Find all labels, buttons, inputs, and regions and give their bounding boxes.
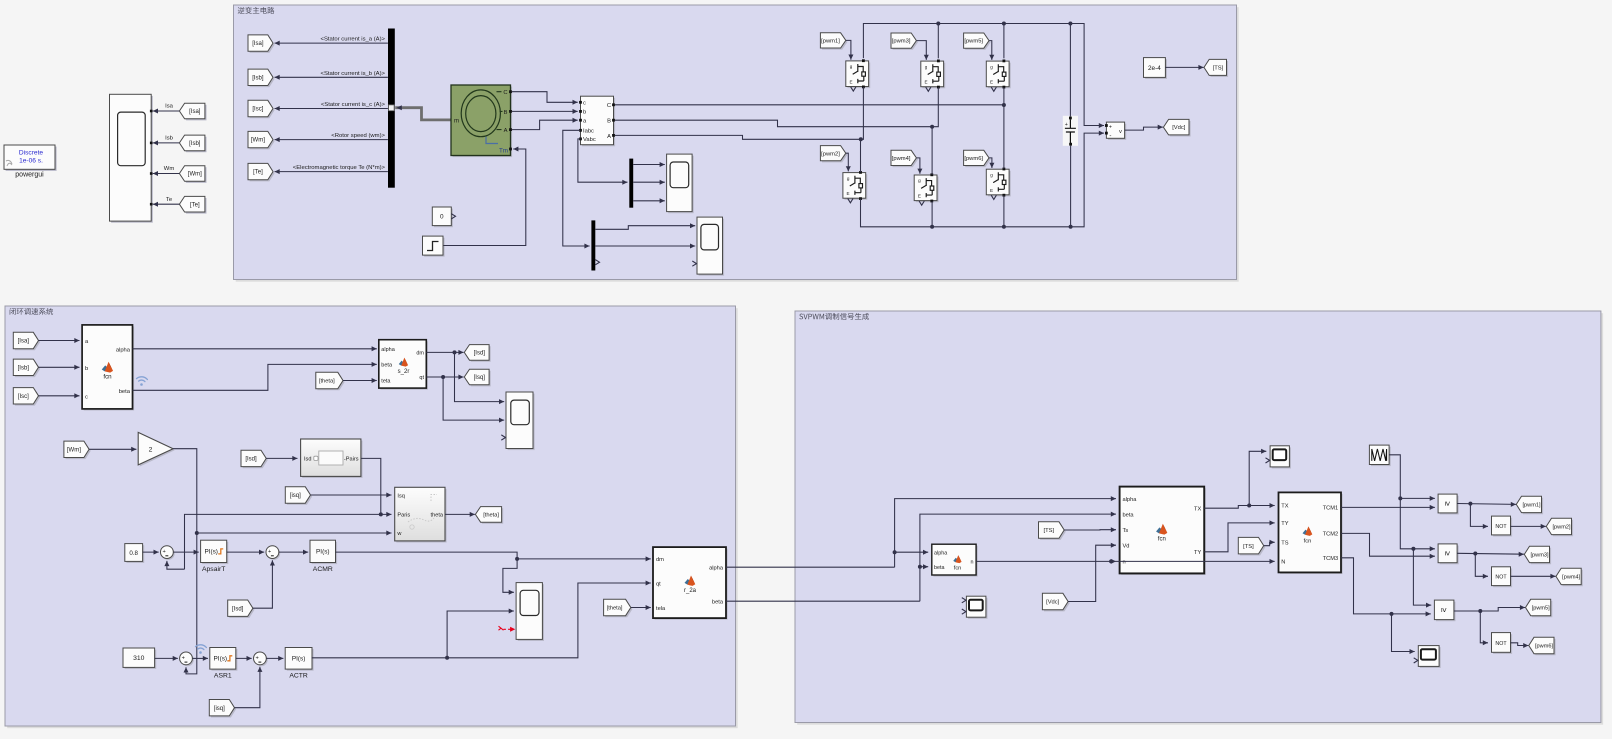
constant 0.8 bbox=[126, 545, 144, 563]
wire r_2a alpha to SVPWM area bbox=[726, 566, 895, 568]
sum2 circle bbox=[267, 547, 280, 560]
wire gain down to sum3 (speed feedback) bbox=[173, 449, 197, 674]
svg-text:+: + bbox=[1109, 125, 1112, 131]
goto tag [Isb] (left) bbox=[181, 137, 207, 153]
svg-text:C: C bbox=[503, 90, 507, 96]
demux2 bar bbox=[591, 220, 595, 270]
scope1 (3-input) bbox=[668, 156, 694, 214]
wire ACTR to r_2a qt and scope4 bbox=[312, 583, 651, 658]
from tag [Isd] (to sum2) bbox=[229, 602, 254, 618]
wire NOT1 to [pwm2] bbox=[1511, 525, 1546, 527]
block powergui bbox=[6, 147, 57, 171]
wire machine C to VI c bbox=[512, 92, 578, 103]
gain block 2 (triangle) bbox=[140, 434, 175, 467]
wire IGBT Q5 collector up bbox=[1003, 24, 1005, 59]
svg-text:fcn: fcn bbox=[1304, 538, 1312, 544]
from tag [isq] (to Isq input) bbox=[287, 488, 312, 504]
svg-text:NOT: NOT bbox=[1495, 575, 1507, 581]
svg-text:[Isa]: [Isa] bbox=[252, 41, 264, 47]
wire VI Vabc down to demux1 bbox=[578, 139, 628, 182]
bus selector bar bbox=[388, 29, 395, 188]
goto tag [Wm] (left) bbox=[181, 167, 207, 183]
wire [Isc] to fcn c bbox=[39, 395, 80, 397]
svg-text:fcn: fcn bbox=[1158, 537, 1166, 543]
wire NOT2 to [pwm4] bbox=[1511, 575, 1556, 577]
wire [Te] to scope + label Te bbox=[153, 203, 180, 205]
repeating sequence (triangle wave) block bbox=[1371, 447, 1391, 466]
wire flux feedback line to Paris input and sum1 bbox=[185, 514, 392, 569]
goto tag [pwm6] bbox=[1530, 639, 1555, 655]
svg-text:m: m bbox=[454, 118, 459, 124]
wire ASR1 to sum4 bbox=[236, 657, 252, 659]
sector detection fcn block bbox=[933, 546, 977, 577]
voltage measurement block bbox=[1108, 124, 1126, 140]
wire ApsairT to sum2 bbox=[227, 551, 265, 553]
red commented-out signal into scope4 bbox=[499, 626, 504, 630]
svg-text:[Isq]: [Isq] bbox=[474, 375, 486, 381]
svg-text:Isa: Isa bbox=[165, 104, 174, 110]
wire demux2 out1 to scope2 bbox=[595, 226, 695, 230]
svg-text:E: E bbox=[847, 191, 850, 196]
svg-text:<Stator current is_b (A)>: <Stator current is_b (A)> bbox=[321, 71, 386, 77]
svg-text:PI(s): PI(s) bbox=[292, 656, 306, 663]
constant 2e-4 bbox=[1145, 59, 1167, 79]
leg3 midpoint wire Q5-Q6 bbox=[1003, 87, 1005, 169]
svg-text:beta: beta bbox=[381, 363, 393, 369]
IGBT Q1 bbox=[847, 63, 870, 89]
svg-text:[pwm3]: [pwm3] bbox=[1530, 553, 1548, 559]
wire IGBT Q6 emitter down bbox=[1003, 195, 1005, 227]
svg-text:0.8: 0.8 bbox=[129, 550, 138, 557]
MATLAB function block s_2r bbox=[380, 341, 428, 389]
wire bus to [Isb] + signal label bbox=[275, 76, 388, 78]
svg-text:TX: TX bbox=[1281, 504, 1288, 510]
svg-text:E: E bbox=[990, 188, 993, 193]
svg-text:[pwm4]: [pwm4] bbox=[1562, 575, 1580, 581]
svg-text:[Isd]: [Isd] bbox=[232, 606, 244, 612]
svg-text:alpha: alpha bbox=[381, 347, 395, 353]
PI block ACTR bbox=[287, 649, 314, 671]
from tag [Isa] (area2) bbox=[15, 334, 40, 350]
from tag [pwm5] bbox=[965, 35, 990, 50]
scope2 unconnected input chevron bbox=[692, 261, 696, 266]
svg-text:Te: Te bbox=[166, 197, 173, 203]
svg-text:<Electromagnetic torque Te (N*: <Electromagnetic torque Te (N*m)> bbox=[293, 165, 386, 171]
sum4 circle bbox=[255, 653, 268, 666]
wire Pairs output down to Paris line bbox=[361, 458, 381, 514]
svg-text:B: B bbox=[607, 119, 611, 125]
sum3 circle bbox=[181, 653, 194, 666]
svg-text:TCM3: TCM3 bbox=[1323, 556, 1338, 562]
svg-text:v: v bbox=[1119, 129, 1122, 135]
NOT block 2 bbox=[1493, 568, 1512, 587]
wire TCM3 to GEQ3 and bottom scope bbox=[1341, 558, 1431, 614]
svg-text:<Stator current is_c (A)>: <Stator current is_c (A)> bbox=[321, 102, 386, 108]
wire demux2 out2 to scope2 bbox=[595, 245, 695, 247]
svg-text:qt: qt bbox=[656, 581, 661, 587]
wire 2e-4 to [TS] bbox=[1165, 66, 1203, 68]
svg-text:teta: teta bbox=[381, 379, 391, 385]
goto tag [Isq] (qt) bbox=[466, 371, 491, 387]
goto tag [Te] (top area) bbox=[250, 165, 275, 181]
from tag [pwm2] bbox=[822, 147, 847, 162]
svg-text:<Rotor speed (wm)>: <Rotor speed (wm)> bbox=[331, 133, 385, 139]
goto tag [Te] (left) bbox=[181, 198, 207, 214]
wire [TS] to Ts input bbox=[1064, 529, 1116, 531]
svg-text:PI(s): PI(s) bbox=[316, 549, 330, 556]
wire VM to [Vdc] bbox=[1125, 127, 1163, 130]
goto tag [pwm3] bbox=[1526, 548, 1551, 564]
svg-text:ACTR: ACTR bbox=[289, 673, 308, 680]
wire demux1 out1 to scope1 bbox=[633, 164, 665, 166]
MATLAB function block fcn (clarke) bbox=[84, 327, 134, 411]
display scope (TX) bbox=[1272, 447, 1291, 468]
svg-text:Discrete: Discrete bbox=[19, 150, 44, 157]
svg-text:NOT: NOT bbox=[1495, 641, 1507, 647]
goto tag [pwm1] bbox=[1518, 498, 1543, 514]
wire bus to [Wm] + signal label bbox=[275, 139, 388, 141]
from tag [Isd] (to Pairs) bbox=[243, 452, 268, 468]
svg-text:b: b bbox=[85, 366, 88, 372]
from tag [Isb] (area2) bbox=[15, 361, 40, 377]
wire GEQ1 to [pwm1] and NOT1 bbox=[1457, 503, 1516, 506]
svg-text:alpha: alpha bbox=[709, 565, 724, 571]
svg-text:A: A bbox=[504, 128, 508, 134]
from tag [pwm4] bbox=[893, 152, 918, 167]
svg-text:n: n bbox=[1123, 560, 1126, 566]
svg-text:E: E bbox=[918, 194, 921, 199]
svg-text:alpha: alpha bbox=[934, 551, 947, 557]
IGBT Q5 bbox=[988, 63, 1011, 89]
svg-text:[pwm1]: [pwm1] bbox=[1522, 503, 1540, 509]
wire fcn beta to s_2r beta bbox=[133, 364, 377, 390]
svg-text:g: g bbox=[925, 64, 928, 69]
from tag [Isc] (area2) bbox=[15, 389, 40, 405]
svg-text:≥: ≥ bbox=[1443, 551, 1452, 556]
wire beta up to big fcn + branch to sector fcn bbox=[920, 514, 1116, 601]
svg-text:beta: beta bbox=[1123, 512, 1135, 518]
wire GEQ2 to [pwm3] and NOT2 bbox=[1457, 552, 1524, 555]
svg-text:[pwm4]: [pwm4] bbox=[892, 156, 911, 162]
svg-text:[pwm1]: [pwm1] bbox=[821, 39, 840, 45]
scope block (4-input) bbox=[111, 96, 153, 223]
area: inverter main circuit 逆变主电路 bbox=[236, 7, 1239, 282]
svg-text:Wm: Wm bbox=[164, 166, 175, 172]
scope3 unconnected input chevron bbox=[501, 435, 505, 440]
svg-text:Vd: Vd bbox=[1123, 543, 1130, 549]
svg-text:TCM1: TCM1 bbox=[1323, 505, 1338, 511]
wire [Vdc] up to Vd input bbox=[1068, 545, 1116, 601]
wire sum1 to PI ApsairT bbox=[173, 551, 199, 553]
leg2 midpoint wire Q3-Q4 bbox=[932, 87, 938, 175]
step block bbox=[424, 238, 445, 257]
constant 310 bbox=[125, 650, 157, 669]
NOT block 1 bbox=[1493, 518, 1512, 537]
svg-text:+: + bbox=[256, 655, 259, 661]
wire [pwm2] to IGBT gate bbox=[846, 153, 848, 171]
svg-text:[Isa]: [Isa] bbox=[189, 109, 201, 115]
wire bus to [Isa] + signal label bbox=[275, 42, 388, 44]
bottom scope (TCM3) bbox=[1420, 647, 1441, 668]
DC+ rail wire bbox=[863, 24, 1104, 126]
wire IGBT Q4 emitter down bbox=[931, 201, 933, 227]
wire [Isb] to fcn b bbox=[39, 366, 80, 368]
goto tag [Isb] (top area) bbox=[250, 71, 275, 87]
svg-text:c: c bbox=[583, 101, 586, 107]
svg-text:qt: qt bbox=[419, 375, 424, 381]
goto tag [Isa] (top area) bbox=[250, 37, 275, 53]
svg-text:s_2r: s_2r bbox=[398, 369, 410, 375]
PI block ApsairT bbox=[202, 542, 228, 564]
wire [Isd] to Pairs bbox=[266, 457, 297, 459]
svg-text:fcn: fcn bbox=[103, 374, 112, 381]
svg-text:[theta]: [theta] bbox=[319, 379, 335, 385]
svg-text:g: g bbox=[990, 64, 993, 69]
svg-text:E: E bbox=[990, 80, 993, 85]
svg-text:[Isd]: [Isd] bbox=[474, 351, 486, 357]
asynchronous machine block (green) bbox=[453, 87, 512, 158]
svg-text:Isd: Isd bbox=[304, 457, 311, 463]
svg-text:[Isc]: [Isc] bbox=[18, 394, 29, 400]
svg-text:Vabc: Vabc bbox=[583, 137, 596, 143]
thick physical wire bus to machine m bbox=[395, 108, 450, 120]
from tag [pwm3] bbox=[893, 35, 918, 50]
goto tag [TS] (top) bbox=[1206, 61, 1229, 77]
svg-text:[Isb]: [Isb] bbox=[18, 365, 30, 371]
svg-text:[pwm2]: [pwm2] bbox=[821, 151, 840, 157]
wire gain branch to w input bbox=[197, 532, 392, 534]
wire [pwm3] to IGBT gate bbox=[917, 41, 927, 60]
svg-text:NOT: NOT bbox=[1495, 524, 1507, 530]
svg-text:[Isb]: [Isb] bbox=[252, 75, 264, 81]
wire sum2 to PI ACMR bbox=[279, 551, 308, 553]
wire IGBT Q3 collector up bbox=[937, 24, 939, 59]
bus selector input port marker bbox=[389, 105, 395, 111]
svg-text:-: - bbox=[1109, 132, 1111, 139]
wire [Isb] to scope + label Isb bbox=[153, 142, 180, 144]
svg-text:PI(s): PI(s) bbox=[204, 549, 218, 556]
svg-text:[Wm]: [Wm] bbox=[67, 447, 81, 453]
IGBT Q6 bbox=[988, 171, 1011, 197]
goto tag [Wm] (top area) bbox=[250, 133, 275, 149]
wire s_2r dm to [Isd] and scope3 bbox=[426, 351, 463, 353]
wire cap top to DC+ rail bbox=[1069, 24, 1071, 117]
svg-text:[pwm5]: [pwm5] bbox=[1532, 606, 1550, 612]
svg-text:Isq: Isq bbox=[397, 494, 404, 500]
svg-text:[isq]: [isq] bbox=[214, 706, 225, 712]
svg-text:310: 310 bbox=[133, 655, 145, 662]
junction dots on DC+ rail bbox=[936, 22, 940, 26]
goto tag [pwm4] bbox=[1558, 570, 1583, 586]
svg-text:[TS]: [TS] bbox=[1043, 528, 1054, 534]
wire r_2a beta to SVPWM area bbox=[726, 600, 920, 602]
svg-text:≥: ≥ bbox=[1440, 608, 1449, 613]
svg-text:Ts: Ts bbox=[1123, 528, 1129, 534]
IGBT Q4 bbox=[916, 177, 939, 203]
svg-text:[TS]: [TS] bbox=[1243, 544, 1254, 550]
goto tag [Isa] (left) bbox=[181, 105, 207, 121]
svg-text:<Stator current is_a (A)>: <Stator current is_a (A)> bbox=[321, 37, 386, 43]
svg-text:+: + bbox=[1065, 122, 1068, 128]
svg-text:g: g bbox=[847, 176, 850, 181]
goto tag [pwm2] bbox=[1548, 520, 1573, 536]
svg-text:fcn: fcn bbox=[954, 566, 961, 572]
svg-text:+: + bbox=[182, 655, 185, 661]
svg-text:TCM2: TCM2 bbox=[1323, 532, 1338, 538]
svg-text:TS: TS bbox=[1281, 541, 1288, 547]
sum1 circle bbox=[162, 547, 175, 560]
wire sum4 to PI ACTR bbox=[266, 657, 283, 659]
svg-text:[Isd]: [Isd] bbox=[245, 457, 257, 463]
wire cap bottom to DC- rail bbox=[1070, 146, 1072, 227]
svg-text:Iabc: Iabc bbox=[583, 129, 594, 135]
from tag [TS] (to big fcn) bbox=[1040, 523, 1066, 540]
svg-text:A: A bbox=[607, 134, 611, 140]
svg-text:PI(s): PI(s) bbox=[214, 656, 228, 663]
svg-text:r_2a: r_2a bbox=[684, 588, 697, 594]
svg-text:[Isc]: [Isc] bbox=[252, 107, 263, 113]
MATLAB function block r_2a bbox=[655, 549, 728, 620]
wire 310 to sum3 bbox=[155, 657, 178, 659]
PI block ACMR bbox=[312, 542, 338, 564]
wire triangle to three relational operators bbox=[1389, 455, 1435, 499]
signal logging badge (speed error) bbox=[196, 645, 207, 654]
wire sum3 to PI ASR1 bbox=[192, 657, 208, 659]
goto tag [pwm5] bbox=[1527, 601, 1552, 617]
svg-text:[pwm5]: [pwm5] bbox=[964, 39, 983, 45]
svg-text:[Vdc]: [Vdc] bbox=[1046, 600, 1060, 606]
wire NOT3 to [pwm6] bbox=[1511, 643, 1529, 646]
DC bus capacitor bbox=[1063, 116, 1078, 146]
signal logging badge (fcn beta) bbox=[137, 377, 148, 386]
goto tag [theta] (area2) bbox=[477, 508, 503, 524]
phase B wire from VI to leg2 bbox=[615, 120, 932, 127]
wire demux1 out2 to scope1 bbox=[633, 181, 665, 183]
wire [Isa] to fcn a bbox=[39, 340, 80, 342]
wire demux1 out3 to scope1 bbox=[633, 200, 665, 202]
PI block ASR1 bbox=[211, 649, 237, 671]
from tag [pwm6] bbox=[965, 152, 990, 167]
area: closed-loop speed control 闭环调速系统 bbox=[7, 308, 738, 728]
wire bus to [Isc] + signal label bbox=[275, 108, 388, 110]
wire [pwm1] to IGBT gate bbox=[846, 40, 851, 59]
relational operator GEQ1 bbox=[1440, 496, 1459, 515]
svg-text:[pwm6]: [pwm6] bbox=[964, 156, 983, 162]
svg-text:[pwm3]: [pwm3] bbox=[892, 39, 911, 45]
wire [Isd] up to sum2 bbox=[253, 560, 273, 608]
wire [theta] to s_2r teta bbox=[343, 380, 377, 382]
wire [Wm] to scope + label Wm bbox=[153, 173, 180, 175]
svg-text:0: 0 bbox=[440, 214, 444, 221]
svg-text:Tm: Tm bbox=[499, 148, 508, 155]
svg-text:g: g bbox=[990, 172, 993, 177]
NOT block 3 bbox=[1493, 634, 1512, 654]
svg-text:b: b bbox=[583, 110, 586, 116]
goto tag [Vdc] (top) bbox=[1165, 121, 1191, 137]
DC- rail wire bbox=[861, 133, 1105, 227]
svg-text:TX: TX bbox=[1194, 506, 1201, 512]
svg-text:[Te]: [Te] bbox=[253, 170, 263, 176]
constant block 0 bbox=[434, 209, 453, 228]
svg-text:ACMR: ACMR bbox=[313, 566, 333, 573]
from tag [theta] (to s_2r) bbox=[317, 374, 344, 390]
wire step to machine Tm bbox=[444, 149, 526, 246]
svg-text:E: E bbox=[924, 80, 927, 85]
relational operator GEQ2 bbox=[1440, 546, 1459, 565]
svg-text:ApsairT: ApsairT bbox=[202, 566, 225, 573]
svg-text:-Pairs: -Pairs bbox=[344, 457, 359, 463]
svg-text:B: B bbox=[504, 110, 508, 116]
wire [Isa] to scope + label Isa bbox=[153, 110, 180, 112]
phase A wire from VI to leg1 bbox=[615, 135, 861, 139]
IGBT Q3 bbox=[922, 63, 945, 89]
from tag [Wm] (area2) bbox=[66, 443, 91, 459]
wire TY to TCM fcn bbox=[1204, 523, 1275, 552]
scope4 (with commented input) bbox=[518, 584, 544, 641]
svg-text:g: g bbox=[918, 178, 921, 183]
wire [TS] to TS input of TCM fcn bbox=[1264, 542, 1275, 545]
svg-text:2e-4: 2e-4 bbox=[1148, 65, 1161, 72]
wire [pwm5] to IGBT gate bbox=[989, 41, 992, 60]
wire TX to TCM fcn and display bbox=[1204, 506, 1275, 509]
demux2 unconnected out chevron bbox=[595, 260, 599, 265]
wire VI Iabc down to demux2 bbox=[563, 130, 590, 246]
wire TCM2 to GEQ2 bbox=[1341, 533, 1435, 556]
wire sector n to big fcn n and TCM fcn N (passes over block) bbox=[976, 560, 1111, 562]
svg-text:+: + bbox=[163, 549, 166, 555]
svg-text:[pwm2]: [pwm2] bbox=[1552, 525, 1570, 531]
wire ACMR to r_2a dm and scope4 bbox=[336, 552, 651, 559]
svg-text:[TS]: [TS] bbox=[1213, 66, 1224, 72]
wire fcn alpha to s_2r alpha bbox=[133, 348, 377, 350]
goto tag [Isc] (top area) bbox=[250, 102, 275, 118]
wire alpha up to big fcn + branch to sector fcn bbox=[895, 499, 1116, 568]
wire [pwm4] to IGBT gate bbox=[917, 158, 920, 174]
from tag [Vdc] (to big fcn) bbox=[1044, 595, 1070, 612]
svg-text:c: c bbox=[85, 394, 88, 400]
svg-text:ASR1: ASR1 bbox=[214, 673, 232, 680]
svg-text:[Isb]: [Isb] bbox=[189, 141, 201, 147]
from tag [pwm1] bbox=[822, 34, 847, 49]
svg-text:[theta]: [theta] bbox=[607, 606, 623, 612]
svg-text:powergui: powergui bbox=[15, 172, 44, 179]
small scope (2 unconnected inputs) bbox=[968, 598, 988, 619]
wire 0.8 to sum1 bbox=[143, 551, 159, 553]
phase C wire from VI to leg3 bbox=[615, 104, 1004, 106]
svg-text:beta: beta bbox=[934, 565, 945, 571]
svg-text:[Isa]: [Isa] bbox=[18, 339, 30, 345]
leg1 midpoint wire Q1-Q2 bbox=[861, 87, 864, 172]
scope3 (dq currents) bbox=[508, 394, 535, 451]
area: SVPWM signal generation SVPWM调制信号生成 bbox=[797, 313, 1603, 725]
svg-text:g: g bbox=[850, 64, 853, 69]
svg-text:N: N bbox=[1281, 560, 1285, 566]
wire machine B to VI b bbox=[512, 110, 578, 112]
wire TCM1 to GEQ1 bbox=[1341, 506, 1435, 508]
wire [isq] up to sum4 bbox=[235, 667, 260, 708]
svg-text:≥: ≥ bbox=[1443, 501, 1452, 506]
svg-text:E: E bbox=[849, 80, 852, 85]
svg-text:Paris: Paris bbox=[397, 513, 410, 519]
demux1 bar bbox=[629, 159, 633, 208]
svg-text:[Te]: [Te] bbox=[190, 202, 200, 208]
svg-text:tela: tela bbox=[656, 606, 666, 612]
svg-text:C: C bbox=[607, 103, 611, 109]
svg-text:dm: dm bbox=[416, 351, 424, 357]
svg-text:TY: TY bbox=[1194, 550, 1201, 556]
Pairs subsystem block bbox=[302, 441, 362, 478]
svg-text:n: n bbox=[971, 559, 974, 565]
